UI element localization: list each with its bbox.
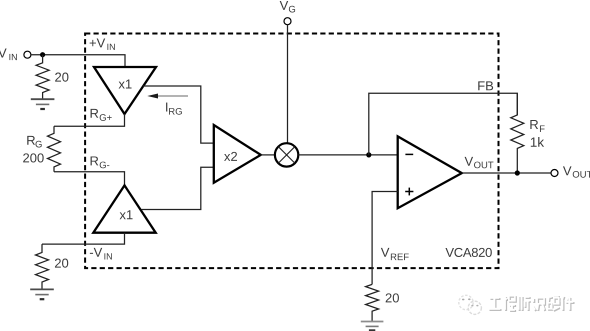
node VG label — [280, 1, 295, 13]
wire VG to multiplier — [287, 25, 289, 144]
buffer x1 (lower, -VIN) — [93, 185, 155, 232]
label IRG — [166, 103, 182, 115]
value 20 — [386, 293, 399, 302]
label VCA820 — [445, 248, 491, 257]
value 20 — [55, 259, 68, 268]
terminal VG — [284, 18, 291, 25]
wire VREF to op-amp non-inverting input — [372, 192, 398, 285]
amplifier x2 — [214, 125, 261, 183]
node VREF label — [381, 248, 409, 260]
wire upper buffer output to RG+ — [54, 114, 125, 126]
buffer x1 (upper, +VIN) — [94, 67, 156, 114]
op-amp output buffer — [398, 136, 462, 208]
multiplier (VG control) — [275, 143, 298, 166]
node -VIN label — [90, 248, 112, 260]
resistor 20 (VIN termination) — [36, 55, 49, 99]
wire x2 to multiplier — [261, 154, 275, 156]
node FB label — [478, 81, 493, 90]
resistor 20 (-VIN termination) — [36, 244, 49, 289]
resistor RF 1k — [511, 93, 524, 173]
resistor 20 (VREF) — [366, 284, 379, 321]
node +VIN label — [90, 38, 115, 49]
value 20 — [55, 73, 68, 82]
junction dot VIN — [40, 52, 45, 57]
value 200 — [23, 153, 44, 162]
dashed box VCA820 boundary — [85, 34, 498, 269]
resistor RG 200 — [48, 126, 61, 171]
node VOUT label (internal) — [465, 157, 494, 168]
node VIN label — [0, 49, 17, 61]
wire op-amp output to VOUT terminal — [462, 172, 551, 174]
ground (VREF) — [361, 322, 384, 331]
node VOUT label (external) — [563, 166, 590, 177]
junction dot FB node — [366, 152, 371, 157]
ground (-VIN termination) — [30, 288, 54, 290]
wire FB — [369, 93, 518, 155]
wire RG to lower buffer — [54, 172, 125, 186]
label RF — [530, 120, 544, 132]
junction dot output/RF — [515, 170, 520, 175]
ground (VIN termination) — [31, 98, 55, 100]
watermark logo — [459, 295, 482, 314]
terminal VOUT — [551, 170, 558, 177]
label RG — [27, 136, 41, 148]
wire VIN to +VIN input — [31, 55, 125, 67]
terminal VIN — [24, 51, 31, 58]
current arrow IRG — [147, 94, 188, 99]
wire upper buffer to x2 input — [143, 86, 214, 143]
node RG+ label — [91, 109, 112, 121]
node RG- label — [91, 156, 110, 168]
wire lower buffer to x2 input — [142, 167, 214, 209]
wire multiplier to op-amp inverting input — [298, 154, 397, 156]
value 1k — [531, 137, 544, 147]
wire -VIN — [42, 233, 125, 244]
